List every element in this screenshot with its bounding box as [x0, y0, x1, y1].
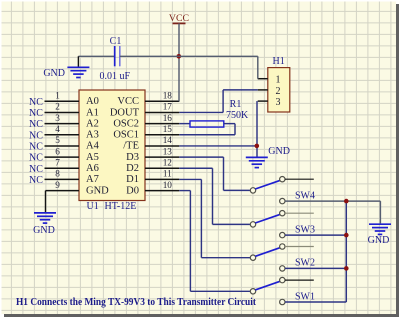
svg-text:16: 16	[163, 113, 173, 123]
U1 designator and value label	[87, 201, 137, 212]
switch SW1 upper contact	[280, 277, 285, 282]
svg-text:4: 4	[55, 124, 60, 134]
svg-text:3: 3	[55, 113, 60, 123]
wire D1 (pin 11) to SW2 common	[179, 179, 250, 257]
U1 pin 18 number	[163, 91, 173, 101]
ground symbol (right of switches)	[369, 224, 391, 234]
svg-text:13: 13	[163, 146, 173, 156]
switch SW4 lower contact	[280, 198, 285, 203]
switch SW3 common contact	[250, 222, 255, 227]
R1 designator label	[230, 99, 242, 110]
U1 pin 16 number	[163, 113, 173, 123]
svg-text:HT-12E: HT-12E	[105, 201, 137, 212]
svg-text:NC: NC	[29, 142, 43, 153]
U1 pin 7 number	[55, 157, 60, 167]
svg-text:0.01 uF: 0.01 uF	[100, 71, 131, 82]
wire DOUT (pin17) to H1 pin 2	[179, 90, 257, 113]
junction /TE / H1 pin3	[254, 144, 259, 149]
GND label (below H1)	[268, 146, 290, 157]
switch SW3 upper contact	[280, 211, 285, 216]
connector H1 body	[268, 68, 290, 112]
SW3 upper contact stub line	[285, 212, 314, 214]
U1 pin 11 number	[163, 169, 172, 179]
switch SW4 upper contact	[280, 177, 285, 182]
svg-text:12: 12	[163, 157, 173, 167]
svg-text:A6: A6	[86, 163, 99, 174]
wire R1 to OSC1 (pin15)	[179, 124, 235, 135]
junction bus / SW3	[344, 233, 349, 238]
junction bus / SW2	[344, 266, 349, 271]
U1 pin 16 line	[145, 123, 179, 125]
NC label pin 4	[29, 130, 43, 141]
SW3 label	[295, 224, 315, 235]
svg-text:1: 1	[55, 91, 60, 101]
NC label pin 8	[29, 175, 43, 186]
U1 pin 11 line	[145, 178, 179, 180]
svg-text:VCC: VCC	[117, 96, 139, 107]
svg-text:18: 18	[163, 91, 173, 101]
wire /TE (pin14) to ground node	[179, 145, 257, 147]
U1 pin 4 number	[55, 124, 60, 134]
capacitor C1	[115, 46, 120, 66]
switch SW2 lower contact	[280, 266, 285, 271]
svg-text:A2: A2	[86, 118, 99, 129]
wire SW4 lower contact to right ground	[285, 201, 380, 223]
junction VCC / C1	[177, 54, 182, 59]
U1 pin 17 number	[163, 102, 173, 112]
svg-text:NC: NC	[29, 130, 43, 141]
U1 pin 12 line	[145, 167, 179, 169]
resistor R1	[190, 121, 224, 127]
svg-text:D3: D3	[126, 152, 139, 163]
ground symbol (left of C1)	[67, 56, 89, 77]
SW2 label	[295, 258, 315, 269]
U1 pin 9 line	[46, 190, 80, 192]
svg-text:7: 7	[55, 157, 60, 167]
U1 pin 1 line	[45, 100, 80, 102]
wire H1 pin 3 down to ground	[256, 101, 258, 157]
wire D0 (pin 10) to SW1 common	[179, 191, 250, 292]
U1 pin 13 line	[145, 156, 179, 158]
U1 pin 2 number	[55, 102, 60, 112]
U1 pin 13 number	[163, 146, 173, 156]
U1 pin 7 line	[45, 167, 80, 169]
svg-text:A3: A3	[86, 130, 99, 141]
svg-text:SW1: SW1	[295, 291, 315, 302]
NC label pin 5	[29, 142, 43, 153]
ground symbol (below U1)	[34, 213, 56, 223]
svg-text:A7: A7	[86, 174, 99, 185]
svg-text:1: 1	[276, 75, 281, 86]
svg-text:NC: NC	[29, 175, 43, 186]
svg-text:H1 Connects the Ming TX-99V3 t: H1 Connects the Ming TX-99V3 to This Tra…	[16, 297, 257, 308]
svg-text:2: 2	[55, 102, 60, 112]
switch SW4 common contact	[250, 188, 255, 193]
svg-text:NC: NC	[29, 108, 43, 119]
U1 pin 6 line	[45, 156, 80, 158]
wire D3 (pin 13) to SW4 common	[179, 157, 250, 190]
svg-text:NC: NC	[29, 119, 43, 130]
U1 pin 14 number	[163, 135, 173, 145]
C1 value label 0.01 uF	[100, 71, 131, 82]
svg-text:17: 17	[163, 102, 173, 112]
U1 pin 8 number	[55, 169, 60, 179]
wire SW1 lower contact to bus	[285, 301, 346, 303]
svg-text:GND: GND	[368, 235, 390, 246]
U1 pin 9 number	[55, 180, 60, 190]
svg-text:A4: A4	[86, 141, 100, 152]
U1 pin 5 number	[55, 135, 60, 145]
svg-text:A0: A0	[86, 96, 99, 107]
U1 pin 8 line	[45, 178, 80, 180]
svg-text:NC: NC	[29, 153, 43, 164]
svg-text:DOUT: DOUT	[110, 107, 140, 118]
svg-text:GND: GND	[268, 146, 290, 157]
C1 designator label	[110, 36, 122, 47]
U1 pin 3 line	[45, 123, 80, 125]
wire ground bus vertical	[345, 201, 347, 302]
svg-text:SW4: SW4	[295, 190, 315, 201]
SW2 upper contact stub line	[285, 246, 314, 248]
U1 pin 14 line	[145, 145, 179, 147]
switch SW2 common contact	[250, 255, 255, 260]
svg-text:11: 11	[163, 169, 172, 179]
SW4 upper contact stub line	[285, 178, 314, 180]
U1 pin 17 line	[145, 111, 179, 113]
svg-text:OSC1: OSC1	[113, 130, 139, 141]
svg-text:OSC2: OSC2	[113, 118, 139, 129]
wire D2 (pin 12) to SW3 common	[179, 168, 250, 224]
junction bus / SW4	[344, 199, 349, 204]
switch SW2 blade	[255, 248, 280, 257]
SW4 label	[295, 190, 315, 201]
U1 pin 5 line	[45, 145, 80, 147]
svg-text:750K: 750K	[226, 110, 249, 121]
svg-text:2: 2	[276, 86, 281, 97]
svg-text:A5: A5	[86, 152, 99, 163]
svg-text:GND: GND	[43, 68, 65, 79]
svg-text:A1: A1	[86, 107, 99, 118]
svg-text:9: 9	[55, 180, 60, 190]
H1 designator label	[273, 56, 285, 67]
wire VCC to H1 pin 1	[179, 56, 258, 78]
H1 pin 1 line	[258, 78, 268, 80]
wire SW3 lower contact to bus	[285, 234, 346, 236]
U1 pin 12 number	[163, 157, 173, 167]
U1 pin 15 line	[145, 134, 179, 136]
SW1 upper contact stub line	[285, 279, 314, 281]
wire SW2 lower contact to bus	[285, 267, 346, 269]
power symbol VCC	[169, 13, 189, 24]
GND label (below U1)	[33, 225, 55, 236]
svg-text:GND: GND	[86, 185, 109, 196]
switch SW3 blade	[255, 214, 280, 223]
svg-text:R1: R1	[230, 99, 242, 110]
H1 pin 3 line	[258, 100, 268, 102]
U1 pin 18 line	[145, 100, 179, 102]
svg-text:8: 8	[55, 169, 60, 179]
switch SW1 lower contact	[280, 299, 285, 304]
svg-text:10: 10	[163, 180, 173, 190]
IC U1 HT-12E body	[79, 90, 145, 201]
svg-text:H1: H1	[273, 56, 285, 67]
wire OSC2 (pin16) to R1	[179, 123, 190, 125]
switch SW2 upper contact	[280, 244, 285, 249]
caption note text	[16, 297, 257, 308]
svg-text:U1: U1	[87, 201, 99, 212]
svg-text:D0: D0	[126, 185, 139, 196]
svg-text:15: 15	[163, 124, 173, 134]
U1 pin 10 line	[145, 190, 179, 192]
U1 pin 6 number	[55, 146, 60, 156]
wire U1 pin 9 to ground	[45, 191, 47, 213]
GND label (C1)	[43, 68, 65, 79]
NC label pin 6	[29, 153, 43, 164]
ground symbol (below H1)	[246, 157, 268, 167]
wire GND to C1 left plate	[78, 55, 114, 57]
switch SW1 blade	[255, 281, 280, 290]
SW1 label	[295, 291, 315, 302]
NC label pin 3	[29, 119, 43, 130]
svg-text:SW3: SW3	[295, 224, 315, 235]
svg-text:6: 6	[55, 146, 60, 156]
switch SW3 lower contact	[280, 232, 285, 237]
GND label (right)	[368, 235, 390, 246]
wire VCC vertical to U1 pin 18	[178, 23, 180, 101]
NC label pin 7	[29, 164, 43, 175]
U1 pin 2 line	[45, 111, 80, 113]
wire C1 right plate to VCC line	[120, 55, 179, 57]
H1 pin 2 line	[258, 89, 268, 91]
switch SW4 blade	[255, 180, 280, 189]
svg-text:5: 5	[55, 135, 60, 145]
NC label pin 2	[29, 108, 43, 119]
svg-text:NC: NC	[29, 164, 43, 175]
svg-text:C1: C1	[110, 36, 122, 47]
svg-text:GND: GND	[33, 225, 55, 236]
U1 pin 4 line	[45, 134, 80, 136]
R1 value label 750K	[226, 110, 249, 121]
NC label pin 1	[29, 97, 43, 108]
svg-text:/TE: /TE	[123, 141, 139, 152]
svg-text:D2: D2	[126, 163, 139, 174]
switch SW1 common contact	[250, 289, 255, 294]
svg-text:14: 14	[163, 135, 173, 145]
svg-text:D1: D1	[126, 174, 139, 185]
U1 pin 3 number	[55, 113, 60, 123]
svg-text:NC: NC	[29, 97, 43, 108]
svg-text:3: 3	[276, 97, 281, 108]
U1 pin 1 number	[55, 91, 60, 101]
svg-text:SW2: SW2	[295, 258, 315, 269]
U1 pin 15 number	[163, 124, 173, 134]
U1 pin 10 number	[163, 180, 173, 190]
